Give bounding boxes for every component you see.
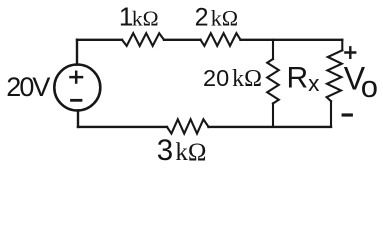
wire right-top corner into Rx: [341, 40, 343, 51]
wire left vertical lower (source to bottom wire): [77, 110, 79, 127]
wire bottom-left horizontal segment: [78, 126, 167, 128]
minus sign output polarity: [343, 113, 351, 116]
resistor 1kOhm zigzag: [122, 33, 164, 46]
plus sign output polarity: [345, 47, 355, 58]
wire stub Rx bottom: [330, 101, 332, 127]
svg-text:3kΩ: 3kΩ: [157, 134, 207, 167]
svg-text:Vo: Vo: [344, 60, 378, 104]
resistor 2kOhm zigzag: [201, 33, 241, 46]
wire stub 20k resistor bottom: [272, 103, 274, 127]
minus sign inside source: [72, 99, 82, 102]
resistor 20kOhm vertical zigzag: [267, 59, 279, 103]
voltage source V1 circle 20V: [54, 65, 100, 111]
wire between 1k and 2k: [164, 39, 201, 41]
wire bottom-right horizontal segment: [209, 126, 332, 128]
wire top-right horizontal segment: [241, 39, 343, 41]
resistor 3kOhm zigzag: [167, 119, 209, 133]
svg-text:Rx: Rx: [287, 61, 321, 96]
svg-text:20V: 20V: [6, 72, 50, 102]
wire stub 20k resistor top: [272, 40, 274, 59]
resistor Rx vertical zigzag: [327, 50, 343, 101]
svg-text:20kΩ: 20kΩ: [203, 65, 262, 92]
plus sign inside source: [71, 72, 83, 83]
wire top-left horizontal segment: [77, 39, 122, 41]
svg-text:2kΩ: 2kΩ: [195, 4, 238, 32]
svg-text:1kΩ: 1kΩ: [119, 2, 159, 32]
wire left vertical upper (source to top wire): [76, 40, 78, 65]
